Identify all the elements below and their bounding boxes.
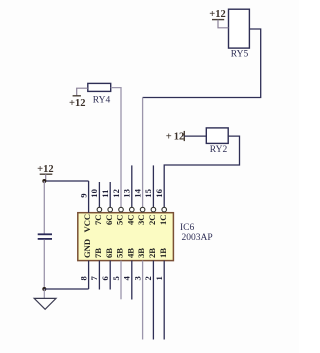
pin 4 stub — [131, 261, 133, 300]
svg-text:8: 8 — [78, 276, 88, 281]
pin 1 wire — [163, 261, 165, 340]
svg-text:14: 14 — [132, 188, 142, 197]
svg-text:7: 7 — [89, 276, 99, 281]
junction dot bottom — [42, 287, 46, 291]
svg-text:2C: 2C — [147, 214, 157, 225]
svg-text:3C: 3C — [136, 214, 146, 225]
svg-text:4B: 4B — [125, 248, 135, 258]
ground — [34, 289, 56, 309]
relay RY2 — [206, 128, 228, 155]
pin circle 12 — [119, 207, 124, 212]
svg-text:+ 12: + 12 — [166, 132, 185, 143]
svg-text:RY5: RY5 — [231, 50, 249, 60]
svg-text:+12: +12 — [69, 98, 85, 109]
svg-text:4: 4 — [122, 276, 132, 281]
svg-text:13: 13 — [122, 189, 132, 198]
svg-text:RY4: RY4 — [93, 96, 111, 106]
wire RY4 right to pin 12 — [111, 88, 121, 208]
svg-text:1B: 1B — [158, 248, 168, 258]
pin circle 16 — [162, 207, 167, 212]
capacitor C — [38, 234, 52, 239]
power +12 (RY4) — [69, 88, 88, 109]
svg-text:3B: 3B — [136, 248, 146, 258]
svg-text:1C: 1C — [158, 214, 168, 225]
svg-text:15: 15 — [143, 189, 153, 198]
svg-text:+12: +12 — [209, 9, 225, 20]
svg-text:6: 6 — [100, 276, 110, 281]
svg-text:5: 5 — [111, 276, 121, 280]
svg-text:2B: 2B — [147, 248, 157, 258]
pin 11 stub — [109, 182, 111, 208]
svg-text:10: 10 — [89, 189, 99, 198]
pin circle 15 — [151, 207, 156, 212]
power +12 (left rail) — [37, 164, 53, 181]
pin 6 stub — [109, 261, 111, 290]
wire gnd to pin 8 — [44, 288, 88, 290]
wire +12 to pin 9 — [44, 180, 88, 182]
junction dot top — [42, 179, 46, 183]
pin 15 stub — [152, 165, 154, 207]
pin 3 wire — [142, 261, 144, 340]
svg-text:GND: GND — [82, 239, 92, 258]
svg-text:IC6: IC6 — [180, 223, 195, 233]
pin 8 wire — [88, 261, 90, 289]
pin 9 wire — [88, 181, 90, 213]
svg-text:3: 3 — [132, 276, 142, 280]
svg-text:2003AP: 2003AP — [182, 233, 213, 243]
svg-text:7B: 7B — [93, 248, 103, 258]
pin 2 wire — [152, 261, 154, 340]
svg-text:VCC: VCC — [82, 214, 92, 233]
wire rail down — [43, 181, 45, 234]
svg-text:1: 1 — [154, 276, 164, 280]
pin circle 13 — [130, 207, 135, 212]
svg-text:12: 12 — [111, 189, 121, 198]
svg-text:16: 16 — [154, 188, 164, 197]
pin circle 14 — [140, 207, 145, 212]
svg-text:RY2: RY2 — [210, 145, 228, 155]
pin 13 stub — [131, 165, 133, 207]
svg-text:6C: 6C — [104, 214, 114, 225]
svg-text:6B: 6B — [104, 248, 114, 258]
power +12 (RY5) — [209, 9, 228, 28]
svg-text:5C: 5C — [115, 214, 125, 225]
svg-text:9: 9 — [78, 193, 88, 197]
pin 10 stub — [98, 182, 100, 208]
svg-text:4C: 4C — [125, 214, 135, 225]
relay RY4 — [88, 83, 111, 105]
pin 5 stub — [120, 261, 122, 300]
wire RY2 right to pin 16 — [164, 136, 239, 208]
svg-text:7C: 7C — [93, 214, 103, 225]
IC U1 body — [78, 213, 174, 261]
svg-text:2: 2 — [143, 276, 153, 280]
svg-text:+12: +12 — [37, 164, 53, 175]
wire RY5 right to pin 14 — [143, 29, 261, 208]
relay RY5 — [229, 9, 250, 59]
wire rail down 2 — [43, 240, 45, 290]
pin circle 10 — [97, 207, 102, 212]
pin 7 stub — [98, 261, 100, 290]
svg-text:5B: 5B — [115, 248, 125, 258]
power +12 (RY2) — [166, 131, 207, 143]
pin circle 11 — [108, 207, 113, 212]
svg-text:11: 11 — [100, 190, 110, 198]
